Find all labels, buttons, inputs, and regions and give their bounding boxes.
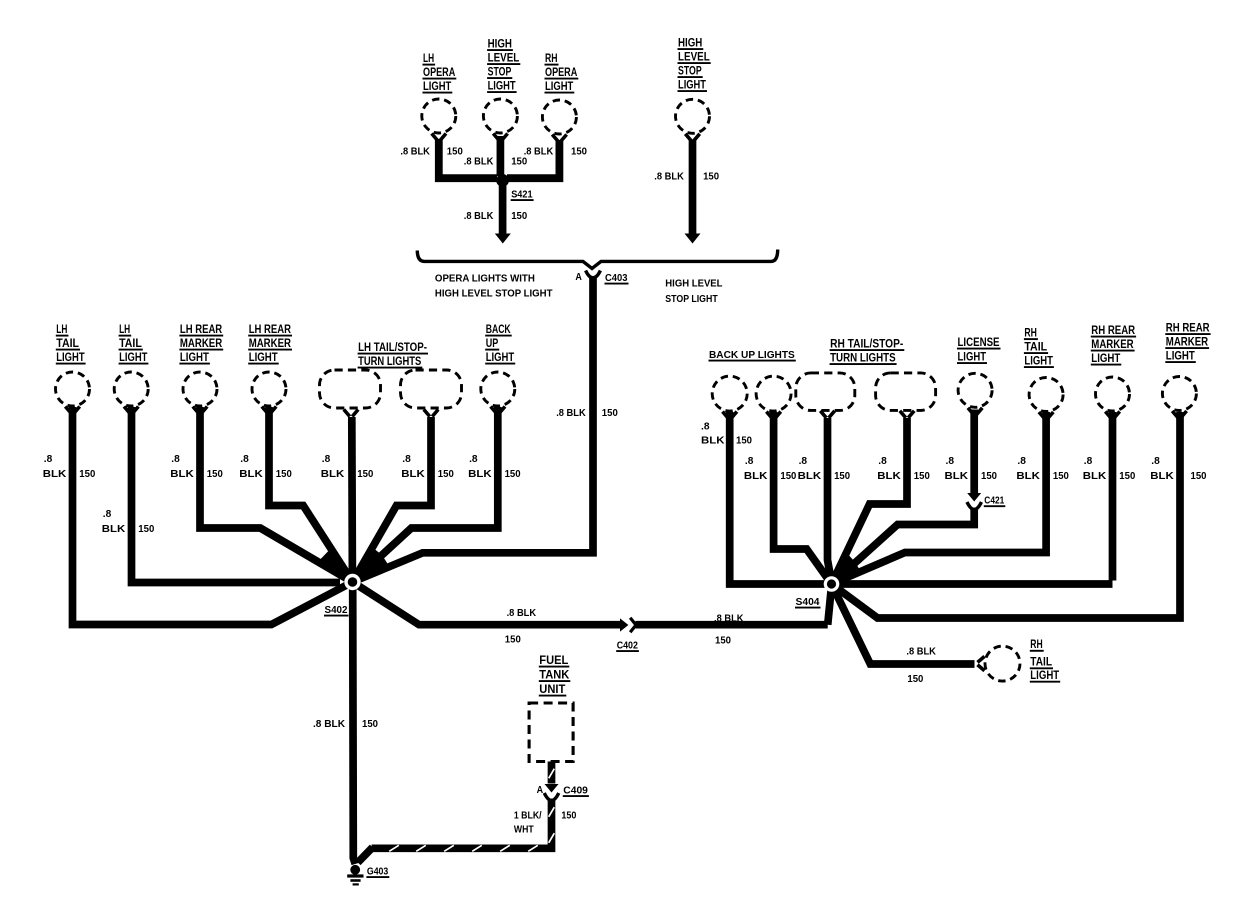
svg-text:.8: .8 bbox=[44, 454, 53, 465]
svg-text:LIGHT: LIGHT bbox=[1024, 354, 1053, 368]
wire fuel tank unit to connector C409 (1 BLK/WHT) bbox=[548, 762, 556, 784]
ground G403 bbox=[350, 865, 360, 875]
splice S402 wedge fill bbox=[353, 548, 390, 583]
splice S404 wedge fill bbox=[832, 551, 863, 584]
wire back up light (left) to S402, .8 BLK 150 bbox=[353, 407, 498, 582]
svg-text:.8 BLK: .8 BLK bbox=[556, 408, 586, 419]
svg-text:150: 150 bbox=[362, 719, 378, 730]
svg-text:BLK: BLK bbox=[877, 471, 901, 482]
svg-text:150: 150 bbox=[276, 469, 292, 480]
svg-text:.8: .8 bbox=[469, 454, 478, 465]
svg-text:TURN LIGHTS: TURN LIGHTS bbox=[358, 354, 421, 368]
svg-text:150: 150 bbox=[715, 636, 731, 647]
svg-text:STOP LIGHT: STOP LIGHT bbox=[665, 294, 717, 305]
svg-text:.8: .8 bbox=[701, 422, 710, 433]
svg-text:.8 BLK: .8 BLK bbox=[313, 719, 346, 730]
wire license light to connector C421, .8 BLK 150 bbox=[970, 410, 978, 497]
svg-text:150: 150 bbox=[914, 471, 930, 482]
svg-text:BLK: BLK bbox=[1083, 471, 1107, 482]
wire LH tail/stop-turn lamp 1 to S402, .8 BLK 150 bbox=[348, 417, 356, 578]
connector C402 (male arrow / female chevron) bbox=[620, 618, 628, 631]
svg-text:RH: RH bbox=[545, 51, 558, 65]
wire S402 to connector C402, .8 BLK 150 bbox=[353, 582, 621, 625]
svg-text:RH REAR: RH REAR bbox=[1091, 323, 1135, 337]
svg-text:TAIL: TAIL bbox=[1024, 340, 1047, 354]
svg-text:S404: S404 bbox=[796, 597, 820, 608]
wire center high level stop light into S421, .8 BLK 150 bbox=[497, 136, 505, 176]
svg-text:LH REAR: LH REAR bbox=[180, 322, 223, 336]
wire LH rear marker #1 to S402, .8 BLK 150 bbox=[200, 407, 353, 582]
wire RH rear marker #2 to S404, .8 BLK 150 bbox=[832, 412, 1181, 618]
svg-text:LIGHT: LIGHT bbox=[545, 79, 574, 93]
svg-text:LIGHT: LIGHT bbox=[1166, 349, 1196, 363]
svg-text:LIGHT: LIGHT bbox=[678, 78, 707, 92]
svg-text:150: 150 bbox=[736, 436, 752, 447]
wire C409 to ground run, 1 BLK/WHT 150 (hatched) bbox=[372, 799, 552, 849]
svg-text:.8: .8 bbox=[240, 454, 249, 465]
svg-text:BLK: BLK bbox=[1150, 471, 1174, 482]
svg-text:BLK: BLK bbox=[468, 469, 492, 480]
connector C421 (arrow into cup) bbox=[967, 493, 981, 502]
svg-text:TANK: TANK bbox=[539, 668, 569, 682]
svg-text:.8 BLK: .8 BLK bbox=[464, 156, 494, 167]
svg-text:.8 BLK: .8 BLK bbox=[524, 147, 554, 158]
svg-text:BLK: BLK bbox=[170, 469, 194, 480]
svg-text:A: A bbox=[537, 785, 544, 796]
svg-text:150: 150 bbox=[571, 147, 587, 158]
svg-text:150: 150 bbox=[561, 811, 576, 822]
svg-text:LIGHT: LIGHT bbox=[958, 350, 987, 364]
svg-text:.8: .8 bbox=[1084, 456, 1093, 467]
splice S421 bbox=[496, 174, 509, 187]
svg-text:LIGHT: LIGHT bbox=[1091, 351, 1121, 365]
svg-text:LH REAR: LH REAR bbox=[249, 322, 292, 336]
svg-text:BACK: BACK bbox=[486, 322, 511, 336]
svg-text:.8 BLK: .8 BLK bbox=[906, 646, 936, 657]
wire LH rear marker #2 to S402, .8 BLK 150 bbox=[269, 407, 353, 582]
svg-text:BLK: BLK bbox=[798, 471, 822, 482]
svg-text:WHT: WHT bbox=[514, 824, 534, 835]
wire S402 to ground G403, .8 BLK 150 bbox=[353, 586, 356, 864]
svg-text:HIGH: HIGH bbox=[488, 37, 512, 51]
wire back up light #1 to S404, .8 BLK 150 bbox=[730, 412, 1113, 584]
svg-text:TAIL: TAIL bbox=[1030, 655, 1052, 669]
svg-text:150: 150 bbox=[602, 408, 618, 419]
svg-text:.8: .8 bbox=[878, 456, 887, 467]
svg-text:UP: UP bbox=[486, 336, 499, 350]
svg-text:LICENSE: LICENSE bbox=[958, 335, 1000, 349]
svg-text:BLK: BLK bbox=[701, 436, 725, 447]
svg-text:150: 150 bbox=[780, 471, 796, 482]
svg-text:LEVEL: LEVEL bbox=[488, 51, 520, 65]
svg-text:150: 150 bbox=[1191, 471, 1207, 482]
svg-text:150: 150 bbox=[505, 469, 521, 480]
wire RH opera light to S421, .8 BLK 150 bbox=[507, 140, 559, 178]
splice S404 (junction dot) bbox=[824, 576, 840, 592]
svg-text:150: 150 bbox=[1053, 471, 1069, 482]
svg-text:150: 150 bbox=[438, 469, 454, 480]
svg-text:150: 150 bbox=[1119, 471, 1135, 482]
svg-text:.8: .8 bbox=[322, 454, 331, 465]
svg-text:HIGH LEVEL STOP LIGHT: HIGH LEVEL STOP LIGHT bbox=[435, 289, 553, 300]
svg-text:BACK UP LIGHTS: BACK UP LIGHTS bbox=[709, 350, 795, 361]
svg-text:BLK: BLK bbox=[401, 469, 425, 480]
svg-text:.8: .8 bbox=[402, 454, 411, 465]
svg-text:150: 150 bbox=[703, 172, 719, 183]
svg-text:LH TAIL/STOP-: LH TAIL/STOP- bbox=[358, 340, 427, 354]
svg-text:S402: S402 bbox=[325, 605, 348, 616]
svg-text:.8 BLK: .8 BLK bbox=[654, 172, 684, 183]
connector C409 (arrow into cup) bbox=[545, 784, 559, 793]
svg-text:.8 BLK: .8 BLK bbox=[507, 608, 537, 619]
connector C403 (female cup) bbox=[586, 271, 601, 278]
svg-text:.8: .8 bbox=[745, 456, 754, 467]
svg-text:LH: LH bbox=[119, 322, 130, 336]
svg-text:LIGHT: LIGHT bbox=[1030, 668, 1059, 682]
wire RH tail light (row) to S404, .8 BLK 150 bbox=[832, 412, 1047, 584]
wire LH tail/stop-turn lamp 2 to S402, .8 BLK 150 bbox=[353, 417, 432, 582]
svg-text:STOP: STOP bbox=[678, 64, 702, 78]
svg-text:150: 150 bbox=[511, 211, 527, 222]
svg-text:TAIL: TAIL bbox=[56, 336, 79, 350]
svg-text:BLK: BLK bbox=[239, 469, 263, 480]
svg-text:LIGHT: LIGHT bbox=[486, 350, 515, 364]
svg-text:LIGHT: LIGHT bbox=[180, 350, 210, 364]
wire C402 to S404, .8 BLK 150 bbox=[636, 621, 828, 629]
svg-text:RH: RH bbox=[1024, 326, 1037, 340]
brace grouping opera lights with high level stop light bbox=[417, 250, 777, 269]
wire RH tail/stop-turn lamp 1 to S404, .8 BLK 150 bbox=[828, 418, 832, 582]
svg-text:150: 150 bbox=[511, 156, 527, 167]
svg-text:HIGH: HIGH bbox=[678, 36, 702, 50]
svg-text:BLK: BLK bbox=[321, 469, 345, 480]
svg-text:TURN LIGHTS: TURN LIGHTS bbox=[830, 351, 896, 365]
svg-text:BLK: BLK bbox=[945, 471, 969, 482]
wire RH tail/stop-turn lamp 2 to S404, .8 BLK 150 bbox=[832, 418, 908, 584]
svg-text:BLK: BLK bbox=[102, 524, 126, 535]
svg-text:MARKER: MARKER bbox=[249, 336, 292, 350]
svg-text:OPERA: OPERA bbox=[545, 65, 578, 79]
wire LH tail light #2 to S402, .8 BLK 150 bbox=[132, 407, 341, 583]
svg-text:.8 BLK: .8 BLK bbox=[464, 211, 494, 222]
wire S421 to C403 with arrow, .8 BLK 150 bbox=[499, 183, 507, 234]
svg-text:C403: C403 bbox=[605, 273, 628, 284]
svg-text:LIGHT: LIGHT bbox=[56, 350, 85, 364]
wire right high level stop light down, .8 BLK 150 bbox=[689, 140, 697, 234]
svg-text:C409: C409 bbox=[563, 786, 588, 797]
svg-text:LIGHT: LIGHT bbox=[488, 79, 517, 93]
svg-text:RH REAR: RH REAR bbox=[1166, 321, 1210, 335]
svg-text:.8 BLK: .8 BLK bbox=[714, 614, 744, 625]
svg-text:150: 150 bbox=[207, 469, 223, 480]
svg-text:OPERA LIGHTS WITH: OPERA LIGHTS WITH bbox=[435, 273, 535, 284]
splice S402 (junction dot) bbox=[344, 574, 360, 590]
svg-text:.8: .8 bbox=[1151, 456, 1160, 467]
wire LH tail light #1 to S402, .8 BLK 150 bbox=[73, 407, 353, 625]
svg-text:150: 150 bbox=[505, 634, 521, 645]
svg-text:.8: .8 bbox=[1017, 456, 1026, 467]
svg-text:.8: .8 bbox=[103, 509, 112, 520]
wire S404 to RH tail light branch, .8 BLK 150 bbox=[832, 584, 975, 664]
svg-text:UNIT: UNIT bbox=[539, 682, 566, 696]
svg-text:BLK: BLK bbox=[744, 471, 768, 482]
svg-text:.8: .8 bbox=[171, 454, 180, 465]
svg-text:MARKER: MARKER bbox=[1091, 337, 1134, 351]
svg-text:BLK: BLK bbox=[43, 469, 67, 480]
svg-text:.8 BLK: .8 BLK bbox=[400, 147, 430, 158]
svg-text:S421: S421 bbox=[511, 190, 533, 201]
svg-text:BLK: BLK bbox=[1016, 471, 1040, 482]
svg-text:LH: LH bbox=[423, 51, 434, 65]
wire back up light #2 to S404, .8 BLK 150 bbox=[774, 412, 832, 584]
svg-text:OPERA: OPERA bbox=[423, 65, 456, 79]
svg-text:MARKER: MARKER bbox=[1166, 335, 1209, 349]
svg-text:150: 150 bbox=[981, 471, 997, 482]
svg-text:HIGH LEVEL: HIGH LEVEL bbox=[665, 278, 722, 289]
svg-text:.8: .8 bbox=[946, 456, 955, 467]
svg-text:STOP: STOP bbox=[488, 65, 512, 79]
svg-text:LIGHT: LIGHT bbox=[249, 350, 279, 364]
svg-text:FUEL: FUEL bbox=[539, 653, 568, 667]
svg-text:150: 150 bbox=[79, 469, 95, 480]
svg-text:1 BLK/: 1 BLK/ bbox=[514, 811, 542, 822]
svg-text:150: 150 bbox=[138, 524, 154, 535]
svg-text:C421: C421 bbox=[984, 496, 1004, 507]
svg-text:150: 150 bbox=[357, 469, 373, 480]
svg-text:LH: LH bbox=[56, 322, 67, 336]
svg-text:LIGHT: LIGHT bbox=[423, 79, 452, 93]
svg-text:C402: C402 bbox=[617, 641, 639, 652]
wire C421 to S404 bbox=[832, 508, 975, 585]
wire LH opera light to S421, .8 BLK 150 bbox=[439, 139, 497, 178]
svg-text:LIGHT: LIGHT bbox=[119, 350, 148, 364]
svg-text:RH: RH bbox=[1030, 637, 1042, 651]
svg-text:150: 150 bbox=[447, 147, 463, 158]
svg-text:TAIL: TAIL bbox=[119, 336, 142, 350]
svg-text:MARKER: MARKER bbox=[180, 336, 223, 350]
svg-text:G403: G403 bbox=[367, 867, 389, 878]
svg-text:LEVEL: LEVEL bbox=[678, 50, 710, 64]
wire C403 down to S402, .8 BLK 150 bbox=[353, 277, 594, 582]
svg-text:150: 150 bbox=[834, 471, 850, 482]
svg-text:RH TAIL/STOP-: RH TAIL/STOP- bbox=[830, 337, 903, 351]
svg-text:A: A bbox=[575, 272, 582, 283]
svg-text:.8: .8 bbox=[799, 456, 808, 467]
svg-text:150: 150 bbox=[907, 674, 923, 685]
